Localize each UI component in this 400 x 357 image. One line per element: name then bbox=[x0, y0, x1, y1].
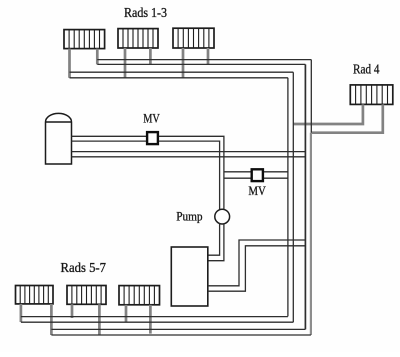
radiator R6 bbox=[67, 286, 106, 305]
pipe R3 left drop bbox=[182, 48, 185, 78]
pipe right riser 1 gray lower bbox=[310, 133, 312, 335]
wire top main 1 bbox=[97, 59, 311, 61]
svg-text:Rads 5-7: Rads 5-7 bbox=[61, 260, 107, 275]
wire cyl lower B bbox=[72, 156, 306, 158]
radiator R5 bbox=[16, 286, 54, 304]
valve MV2 bbox=[252, 169, 263, 181]
wire cyl flow A bbox=[72, 136, 224, 210]
wire right riser 4 bbox=[287, 78, 289, 317]
wire right riser 2 bbox=[304, 64, 306, 329]
pipe R7 left drop bbox=[125, 305, 128, 322]
wire MV2 pair lower bbox=[224, 177, 288, 179]
pipe R2 right drop bbox=[149, 48, 152, 64]
boiler bbox=[171, 247, 208, 306]
pump P1 bbox=[215, 209, 230, 224]
svg-text:MV: MV bbox=[143, 111, 160, 126]
pipe R6 right drop bbox=[98, 304, 101, 334]
wire pump to boiler B bbox=[208, 223, 224, 260]
valve MV1 bbox=[147, 132, 158, 144]
wire bottom main 1 bbox=[21, 316, 288, 318]
pipe R1 left drop bbox=[68, 49, 71, 78]
pipe R4 left elbow bbox=[293, 104, 363, 124]
wire bottom main 4 bbox=[51, 334, 311, 336]
wire right riser 1 bbox=[310, 60, 312, 133]
pipe R1 right drop bbox=[96, 49, 99, 65]
wire top main 3 bbox=[70, 71, 294, 73]
pipe R5 left drop bbox=[20, 304, 23, 322]
radiator R7 bbox=[119, 286, 160, 305]
pipe R5 right drop bbox=[50, 304, 53, 335]
svg-text:MV: MV bbox=[248, 183, 266, 198]
pipe R4 right elbow bbox=[311, 104, 383, 132]
svg-text:Pump: Pump bbox=[176, 208, 202, 223]
cylinder bbox=[46, 113, 72, 164]
wire right riser 3 bbox=[292, 72, 294, 322]
radiator R2 bbox=[118, 29, 158, 48]
wire boiler loop outer bbox=[208, 240, 306, 286]
pipe R6 left drop bbox=[71, 304, 74, 318]
svg-text:Rad 4: Rad 4 bbox=[353, 61, 380, 76]
radiator R3 bbox=[173, 28, 214, 48]
wire cyl lower A bbox=[72, 151, 306, 153]
wire top main 4 bbox=[70, 77, 288, 79]
pipe R2 left drop bbox=[124, 48, 127, 78]
pipe R7 right drop bbox=[149, 305, 152, 334]
pipe R3 right drop bbox=[207, 48, 210, 64]
radiator R4 bbox=[350, 85, 393, 105]
wire MV2 pair upper bbox=[224, 171, 288, 173]
wire bottom main 3 bbox=[51, 328, 305, 330]
svg-text:Rads 1-3: Rads 1-3 bbox=[124, 5, 167, 20]
wire pump to boiler A bbox=[208, 223, 220, 255]
wire bottom main 2 bbox=[21, 321, 293, 323]
wire top main 2 bbox=[97, 63, 305, 65]
radiator R1 bbox=[64, 30, 105, 49]
wire boiler loop inner bbox=[208, 246, 306, 291]
wire cyl flow B bbox=[72, 141, 220, 210]
